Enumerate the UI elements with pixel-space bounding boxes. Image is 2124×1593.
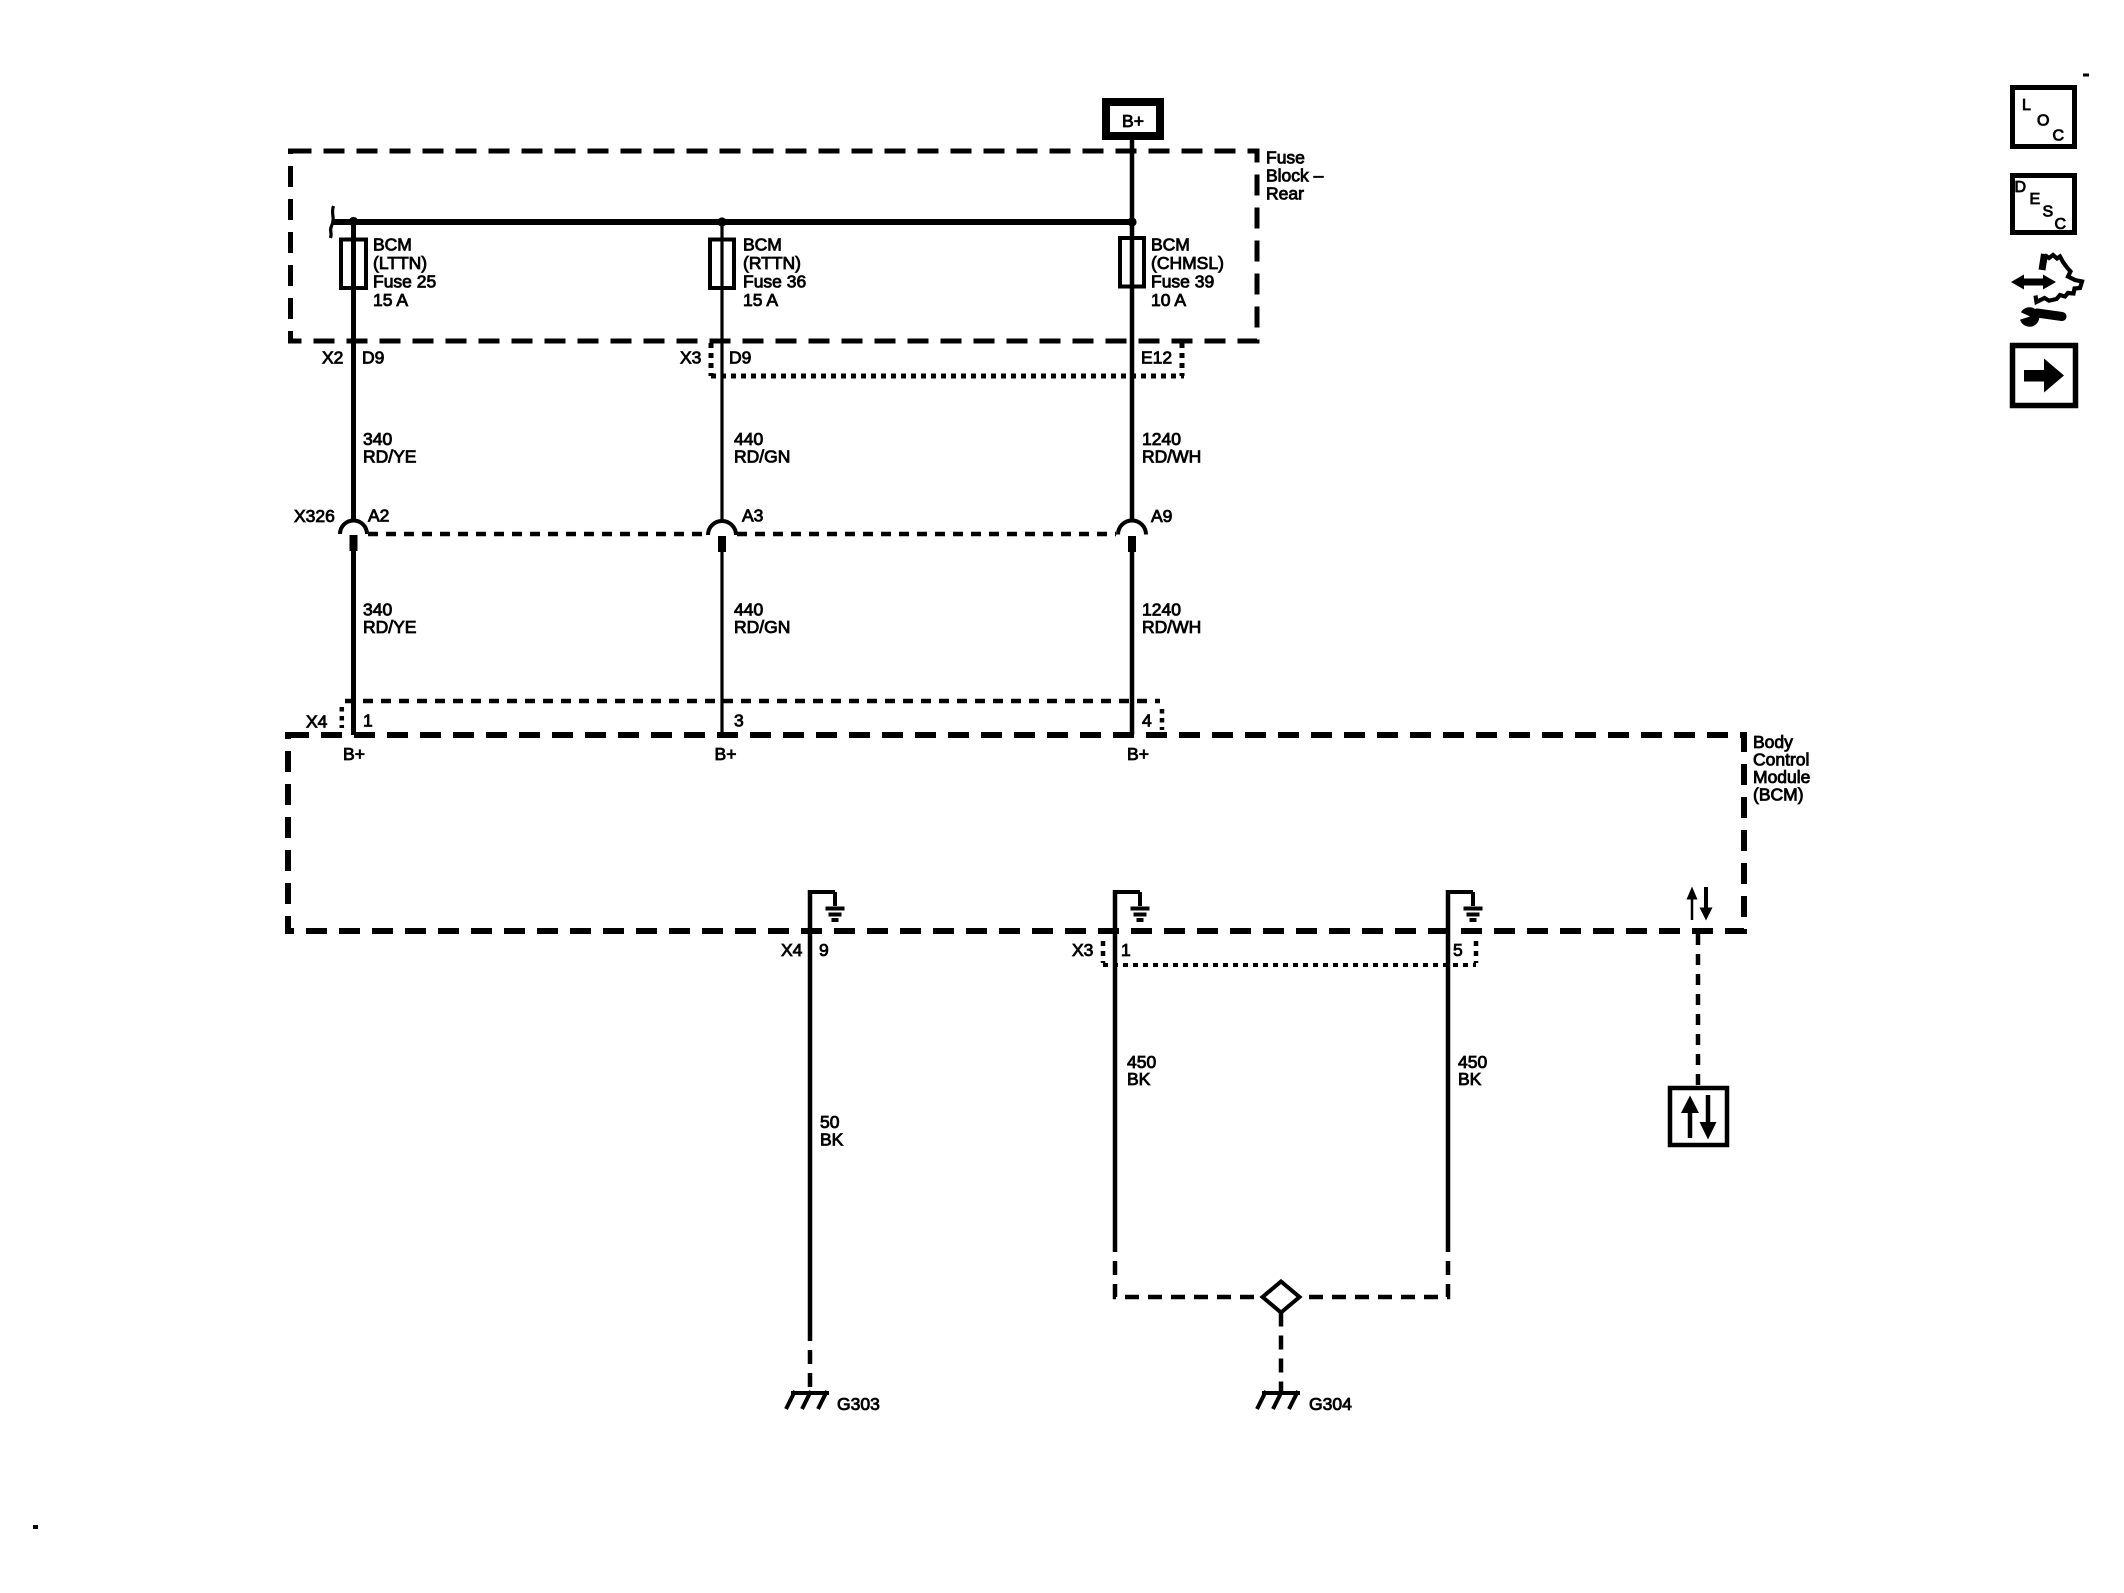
svg-text:B+: B+ [1127,744,1149,764]
svg-text:X2: X2 [322,348,343,368]
svg-text:RD/WH: RD/WH [1142,617,1201,637]
svg-text:(CHMSL): (CHMSL) [1151,253,1224,273]
svg-text:BCM: BCM [1151,235,1190,255]
svg-text:Block –: Block – [1266,166,1324,186]
svg-text:Rear: Rear [1266,184,1304,204]
svg-text:4: 4 [1142,711,1152,731]
svg-text:O: O [2037,113,2049,130]
svg-text:1: 1 [363,711,373,731]
svg-text:BK: BK [1127,1069,1151,1089]
svg-text:Fuse 36: Fuse 36 [743,272,806,292]
svg-text:B+: B+ [715,744,737,764]
svg-text:Fuse: Fuse [1266,148,1305,168]
svg-text:G303: G303 [837,1394,880,1414]
svg-text:3: 3 [734,711,744,731]
svg-text:D9: D9 [729,348,751,368]
svg-text:RD/YE: RD/YE [363,447,416,467]
svg-text:(LTTN): (LTTN) [373,253,427,273]
svg-text:5: 5 [1453,940,1463,960]
svg-text:X4: X4 [306,712,328,732]
svg-text:(RTTN): (RTTN) [743,253,801,273]
svg-text:A9: A9 [1151,506,1172,526]
svg-text:15 A: 15 A [373,290,408,310]
svg-text:BK: BK [1458,1069,1482,1089]
svg-text:X3: X3 [680,348,701,368]
svg-text:1: 1 [1121,940,1131,960]
svg-text:Fuse 25: Fuse 25 [373,272,436,292]
svg-text:S: S [2043,204,2054,221]
svg-text:RD/GN: RD/GN [734,617,790,637]
svg-text:D: D [2015,179,2027,196]
svg-text:BCM: BCM [743,235,782,255]
svg-text:X326: X326 [294,506,335,526]
svg-text:RD/GN: RD/GN [734,447,790,467]
svg-text:X4: X4 [781,940,803,960]
svg-text:A2: A2 [368,506,389,526]
svg-text:D9: D9 [362,348,384,368]
svg-text:A3: A3 [742,506,763,526]
svg-text:C: C [2055,216,2067,233]
svg-text:E12: E12 [1141,348,1172,368]
svg-text:Fuse 39: Fuse 39 [1151,272,1214,292]
svg-text:E: E [2030,191,2041,208]
svg-text:9: 9 [819,940,829,960]
svg-text:RD/WH: RD/WH [1142,447,1201,467]
svg-text:RD/YE: RD/YE [363,617,416,637]
svg-text:L: L [2022,97,2031,114]
svg-text:C: C [2053,128,2065,145]
svg-text:15 A: 15 A [743,290,778,310]
svg-text:10 A: 10 A [1151,290,1186,310]
svg-text:BK: BK [820,1130,844,1150]
svg-text:X3: X3 [1072,940,1093,960]
svg-text:G304: G304 [1309,1394,1352,1414]
svg-text:BCM: BCM [373,235,412,255]
svg-text:B+: B+ [1122,111,1144,131]
svg-text:(BCM): (BCM) [1753,785,1804,805]
svg-text:B+: B+ [343,744,365,764]
